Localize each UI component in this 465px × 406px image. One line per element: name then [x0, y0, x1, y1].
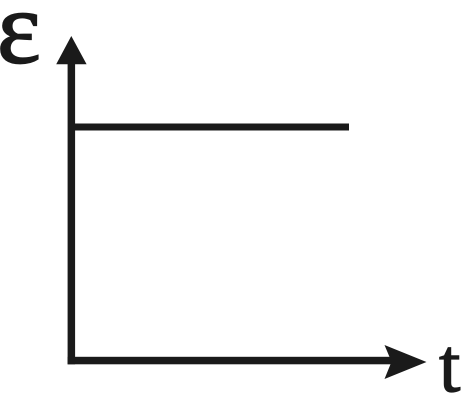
x-axis (horizontal axis line)	[68, 357, 392, 365]
svg-text:ε: ε	[0, 0, 41, 86]
y-axis arrowhead	[56, 36, 86, 64]
svg-text:t: t	[439, 322, 460, 401]
y-axis (vertical axis line)	[68, 50, 76, 364]
constant EMF level line	[68, 124, 349, 131]
x-axis arrowhead	[385, 345, 427, 379]
